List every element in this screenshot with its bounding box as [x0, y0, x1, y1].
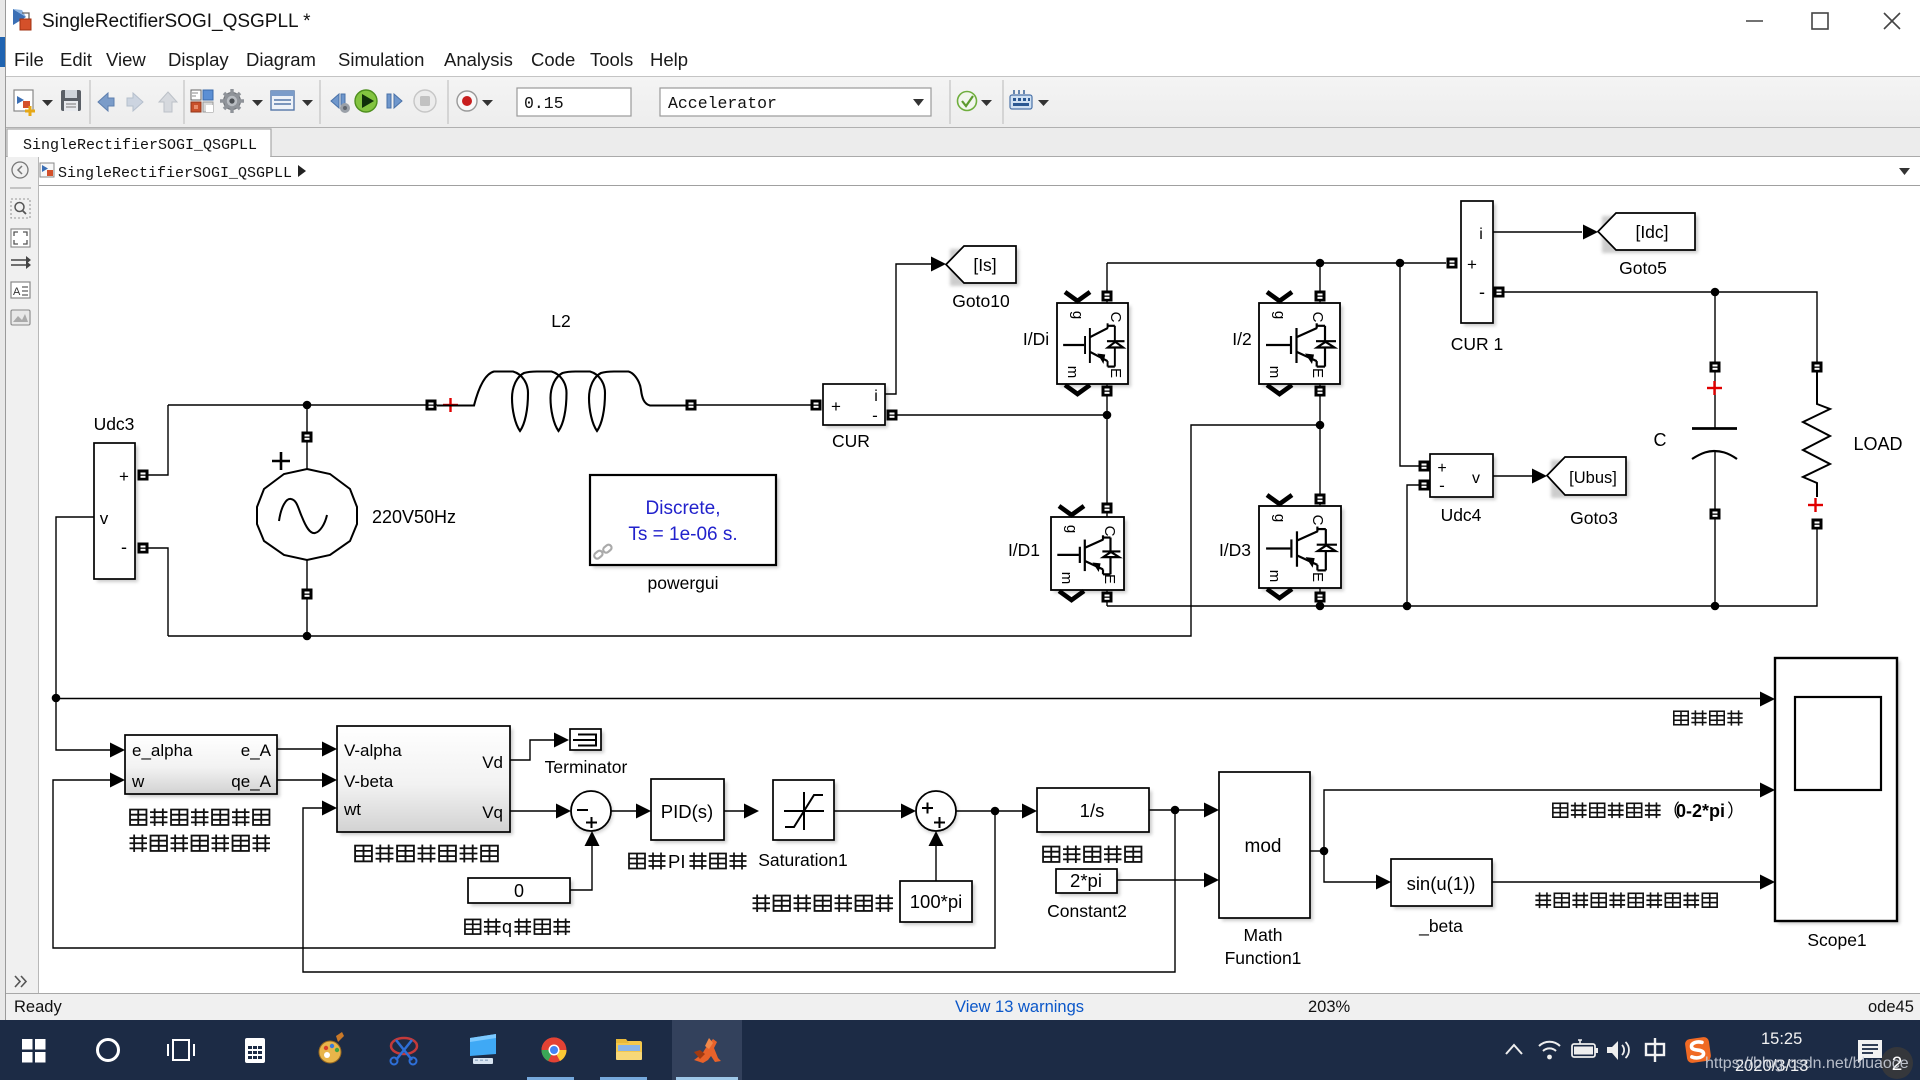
goto tag Goto10 [Is] [950, 249, 1019, 286]
wire mod to sin [1324, 851, 1377, 882]
svg-text:E: E [1309, 572, 1326, 582]
label 锁相PI调节器 [629, 854, 645, 869]
svg-text:+: + [119, 467, 129, 486]
wire sin to Scope1 input 3 [1492, 881, 1761, 883]
I/2 top port [1319, 263, 1321, 303]
wire Udc3 + to top rail [148, 405, 168, 475]
svg-text:g: g [1063, 525, 1080, 533]
LOAD zigzag [1803, 372, 1830, 497]
wire Udc3 v output down to control section [56, 517, 112, 750]
svg-text:Goto3: Goto3 [1570, 508, 1618, 528]
svg-text:I/D3: I/D3 [1219, 540, 1251, 560]
wire Vq to sum1 [510, 810, 556, 812]
svg-text:C: C [1654, 430, 1667, 450]
svg-text:Ready: Ready [14, 998, 62, 1016]
toolbar: check model icon [958, 92, 977, 111]
outer left desktop strip [0, 0, 6, 1020]
svg-text:SingleRectifierSOGI_QSGPLL: SingleRectifierSOGI_QSGPLL [23, 137, 257, 154]
CUR 1 + port [1447, 258, 1458, 269]
svg-text:C: C [1107, 312, 1124, 323]
wire sum1 to PID [611, 810, 636, 812]
wire DC positive rail to C and LOAD [1504, 292, 1817, 363]
svg-text:Udc4: Udc4 [1441, 505, 1482, 525]
wire DC bottom rail [1107, 529, 1817, 606]
toolbar: step back button [331, 94, 350, 113]
svg-text:g: g [1271, 311, 1288, 319]
voltage measurement Udc3 [97, 446, 138, 582]
wire w feedback [53, 780, 995, 948]
toolbar: up arrow (disabled) [159, 92, 177, 112]
label 电网电压 [1674, 711, 1688, 725]
svg-text:-: - [1439, 476, 1445, 495]
saturation block Saturation1 [776, 783, 837, 843]
wire Vd to Terminator [510, 740, 554, 760]
svg-text:View 13 warnings: View 13 warnings [955, 998, 1084, 1016]
Udc4 + port [1419, 461, 1430, 472]
I/D3 bottom port [1319, 588, 1321, 606]
Udc3 + port [138, 470, 149, 481]
constant 0 block [471, 881, 573, 906]
svg-text:e_alpha: e_alpha [132, 741, 193, 760]
I/D1 top port [1102, 503, 1113, 514]
svg-text:I/2: I/2 [1232, 329, 1251, 349]
svg-text:Tools: Tools [590, 49, 633, 70]
junction wt feedback tap [1171, 806, 1180, 815]
I/D3 top port [1315, 494, 1326, 505]
wire DC top rail [1107, 262, 1446, 264]
svg-text:m: m [1058, 572, 1075, 585]
toolbar: step forward button [387, 94, 402, 108]
svg-text:wt: wt [343, 800, 361, 819]
svg-text:E: E [1309, 368, 1326, 378]
svg-text:i: i [874, 388, 878, 405]
wire 100*pi to sum2 [935, 845, 937, 881]
svg-text:Simulation: Simulation [338, 49, 424, 70]
toolbar: back arrow [98, 93, 114, 111]
svg-text:m: m [1266, 366, 1283, 379]
wire Udc4 tap from top rail [1400, 263, 1419, 466]
svg-text:LOAD: LOAD [1853, 434, 1902, 454]
svg-text:Code: Code [531, 49, 575, 70]
L2 coil [437, 372, 691, 432]
svg-text:Vq: Vq [482, 803, 503, 822]
svg-text:sin(u(1)): sin(u(1)) [1407, 873, 1476, 894]
active tab [7, 129, 271, 157]
svg-text:0.15: 0.15 [524, 94, 564, 113]
svg-text:[Is]: [Is] [973, 255, 996, 275]
palette: image annotation [11, 310, 30, 325]
IGBT I/2 [1262, 306, 1343, 387]
svg-text:e_A: e_A [241, 741, 272, 760]
wire CUR 1 i output to Goto5 [1493, 231, 1582, 233]
junction AC top [303, 401, 312, 410]
svg-text:qe_A: qe_A [231, 772, 271, 791]
remote desktop [470, 1034, 496, 1064]
sum block sum2 [916, 792, 958, 834]
wire SOGI e_A to V-alpha [277, 748, 323, 750]
svg-text:C: C [1309, 312, 1326, 323]
palette: annotation tool [11, 282, 30, 298]
wire Udc4 v output to Goto3 [1493, 475, 1532, 477]
IGBT I/Di [1060, 306, 1131, 387]
svg-text:Scope1: Scope1 [1807, 930, 1866, 950]
label 二阶广义积分器 [130, 810, 146, 825]
svg-text:）: ） [1727, 801, 1745, 821]
wire PID to Saturation1 [724, 810, 744, 812]
tab strip [6, 128, 1920, 157]
start button [22, 1039, 46, 1063]
svg-text:powergui: powergui [647, 573, 718, 593]
palette: signal arrows [11, 260, 28, 265]
svg-text:0: 0 [514, 881, 524, 901]
matlab icon [694, 1038, 721, 1063]
wire integrator to mod [1149, 809, 1204, 811]
capacitor plates [1692, 427, 1737, 430]
svg-text:[Ubus]: [Ubus] [1569, 469, 1617, 487]
label 电网电压相角的正弦值 [1535, 892, 1551, 908]
label 单同步坐标变换 [355, 846, 372, 862]
constant 2*pi block [1059, 872, 1120, 896]
IGBT I/D3 [1262, 509, 1344, 591]
svg-text:Udc3: Udc3 [94, 414, 135, 434]
svg-text:g: g [1069, 311, 1086, 319]
svg-text:Analysis: Analysis [444, 49, 513, 70]
IGBT I/D1 [1054, 520, 1127, 593]
I/Di bottom port [1106, 384, 1108, 517]
svg-text:Display: Display [168, 49, 229, 70]
svg-text:w: w [131, 772, 145, 791]
toolbar: save icon [61, 90, 81, 111]
svg-text:1/s: 1/s [1080, 800, 1105, 821]
svg-text:A: A [13, 286, 21, 298]
svg-text:v: v [1472, 470, 1480, 487]
AC source plus sign [272, 452, 290, 470]
current measurement CUR 1 [1464, 204, 1496, 326]
wire mod to Scope1 input 2 [1324, 790, 1761, 851]
toolbar: record button [457, 91, 477, 111]
palette: fit to view [11, 229, 30, 247]
tray: battery [1572, 1040, 1598, 1057]
svg-text:Help: Help [650, 49, 688, 70]
palette: zoom tool [11, 199, 30, 218]
svg-text:220V50Hz: 220V50Hz [372, 507, 456, 527]
svg-text:C: C [1309, 515, 1326, 526]
wire CUR i output to Goto10 [885, 264, 931, 394]
svg-text:m: m [1064, 366, 1081, 379]
svg-text:+: + [1467, 255, 1477, 274]
svg-text:PI: PI [668, 851, 685, 872]
svg-text:E: E [1101, 574, 1118, 584]
svg-text:Math: Math [1244, 925, 1283, 945]
palette: expand chevrons [15, 976, 26, 987]
windows taskbar [0, 1020, 1920, 1080]
Udc4 - port [1419, 480, 1430, 491]
toolbar background [6, 76, 1920, 128]
svg-text:Goto5: Goto5 [1619, 258, 1667, 278]
CUR + port [811, 400, 822, 411]
wire Udc3 - to bottom rail [148, 548, 168, 636]
label 正交信号发生器 [130, 835, 147, 852]
svg-text:Edit: Edit [60, 49, 92, 70]
subsystem single synchronous frame transform [340, 729, 513, 835]
paint [319, 1032, 344, 1063]
toolbar: sim time field [517, 88, 631, 116]
svg-text:https://blog.csdn.net/bluaoce: https://blog.csdn.net/bluaoce [1705, 1055, 1909, 1072]
wire AC return rail [168, 425, 1320, 636]
junction AC bottom [303, 632, 312, 641]
powergui broken link icon [593, 543, 613, 559]
svg-text:q: q [502, 917, 512, 937]
task view [168, 1040, 194, 1060]
tray: notifications [1858, 1040, 1882, 1063]
label 电网电压相角 0-2*pi [1553, 803, 1568, 817]
svg-text:CUR 1: CUR 1 [1451, 334, 1504, 354]
chrome [541, 1037, 566, 1062]
toolbar: run button [355, 90, 377, 112]
svg-text:+: + [831, 397, 841, 416]
wire constant 0 to sum1 [570, 845, 592, 890]
svg-text:SingleRectifierSOGI_QSGPLL: SingleRectifierSOGI_QSGPLL [58, 165, 292, 182]
calculator [245, 1038, 265, 1063]
svg-text:View: View [106, 49, 146, 70]
LOAD red plus [1808, 498, 1823, 512]
svg-text:100*pi: 100*pi [910, 891, 962, 912]
svg-text:Ts = 1e-06 s.: Ts = 1e-06 s. [628, 524, 737, 545]
toolbar: library browser icon [191, 90, 213, 112]
AC source top port [306, 405, 308, 469]
function block sin(u(1)) [1394, 862, 1495, 909]
title bar Simulink logo [13, 9, 31, 30]
CUR - port [887, 410, 898, 421]
svg-text:Diagram: Diagram [246, 49, 316, 70]
svg-text:CUR: CUR [832, 431, 870, 451]
toolbar: mode combo [660, 88, 931, 116]
label 指令q轴电压 [465, 919, 481, 934]
toolbar: keyboard icon [1010, 90, 1032, 109]
junction w feedback tap [991, 807, 1000, 816]
voltage measurement Udc4 [1433, 457, 1496, 500]
svg-text:2*pi: 2*pi [1070, 870, 1102, 891]
svg-text:mod: mod [1245, 836, 1282, 857]
toolbar: gear icon [224, 93, 241, 110]
toolbar: forward arrow (disabled) [127, 93, 143, 111]
capacitor red plus [1707, 381, 1722, 395]
tray: sogou icon [1684, 1036, 1711, 1063]
wire 2*pi to mod [1117, 879, 1204, 881]
Udc3 - port [138, 543, 149, 554]
toolbar: new model icon [14, 90, 35, 116]
wire SOGI qe_A to V-beta [277, 779, 323, 781]
wire mod output [1310, 850, 1324, 852]
sum block sum1 [571, 792, 613, 834]
svg-text:-: - [1479, 282, 1485, 302]
svg-text:Discrete,: Discrete, [646, 498, 721, 519]
taskbar highlight for MATLAB [672, 1020, 742, 1080]
svg-text:+: + [1437, 460, 1446, 477]
junction at grid voltage tap [52, 694, 61, 703]
current measurement CUR [826, 387, 888, 428]
svg-text:[Idc]: [Idc] [1635, 222, 1668, 242]
svg-text:15:25: 15:25 [1761, 1030, 1802, 1048]
svg-text:V-beta: V-beta [344, 772, 394, 791]
I/Di top port [1106, 263, 1108, 303]
svg-text:Accelerator: Accelerator [668, 94, 777, 113]
CUR 1 - port [1494, 287, 1505, 298]
wire sum2 to integrator [956, 810, 1022, 812]
svg-text:Goto10: Goto10 [952, 291, 1010, 311]
wire top rail to L2 [168, 404, 437, 406]
toolbar: stop button (disabled) [414, 90, 436, 112]
left palette [6, 157, 38, 993]
scope block Scope1 [1778, 661, 1900, 924]
svg-text:Constant2: Constant2 [1047, 901, 1127, 921]
svg-text:File: File [14, 49, 44, 70]
math function block mod [1222, 775, 1313, 921]
wire down to capacitor [1714, 292, 1716, 428]
svg-text:C: C [1101, 526, 1118, 537]
svg-text:V-alpha: V-alpha [344, 741, 402, 760]
wire L2 to CUR [696, 404, 811, 406]
wire Saturation1 to sum2 [834, 810, 901, 812]
subsystem SOGI quadrature signal generator [128, 738, 280, 797]
AC source 220V50Hz [257, 469, 357, 560]
svg-text:Function1: Function1 [1225, 948, 1302, 968]
tray: wifi [1539, 1042, 1560, 1051]
file explorer [616, 1039, 642, 1060]
window buttons [1746, 13, 1900, 29]
junction bridge right mid [1316, 421, 1325, 430]
svg-text:v: v [100, 509, 109, 528]
tray: chevron [1506, 1045, 1522, 1054]
wire wt feedback [303, 808, 1175, 972]
svg-text:0-2*pi: 0-2*pi [1676, 801, 1725, 821]
svg-text:E: E [1107, 368, 1124, 378]
svg-text:L2: L2 [551, 311, 570, 331]
snipping tool [391, 1038, 418, 1065]
powergui block [593, 478, 779, 568]
svg-text:I/Di: I/Di [1023, 329, 1049, 349]
svg-text:g: g [1271, 514, 1288, 522]
svg-text:SingleRectifierSOGI_QSGPLL *: SingleRectifierSOGI_QSGPLL * [42, 11, 311, 32]
svg-text:_beta: _beta [1418, 916, 1463, 937]
integrator block 1/s [1040, 791, 1152, 835]
constant 100*pi block [903, 884, 975, 925]
tray: IME zhong [1646, 1038, 1664, 1062]
AC source bottom port [306, 560, 308, 636]
label 理想电网角速度 [753, 895, 770, 912]
svg-text:Saturation1: Saturation1 [758, 850, 848, 870]
wire Udc4 - to bottom rail [1407, 485, 1419, 606]
taskbar underlines [527, 1077, 574, 1080]
tray: speaker [1607, 1041, 1629, 1060]
goto tag Goto3 [Ubus] [1551, 460, 1629, 498]
terminator block [573, 732, 604, 753]
svg-text:Terminator: Terminator [545, 757, 628, 777]
svg-text:ode45: ode45 [1868, 998, 1914, 1016]
svg-text:m: m [1266, 570, 1283, 583]
I/D1 bottom port [1106, 590, 1108, 606]
I/2 bottom port [1319, 384, 1321, 506]
breadcrumb bar [38, 157, 1920, 185]
label 积分求角度 [1043, 847, 1059, 862]
PID controller block [654, 782, 727, 843]
L2 red plus [443, 398, 458, 412]
junction bridge left mid [1103, 411, 1112, 420]
svg-text:I/D1: I/D1 [1008, 540, 1040, 560]
svg-text:Vd: Vd [482, 753, 503, 772]
notification badge [1881, 1047, 1913, 1079]
svg-text:203%: 203% [1308, 998, 1351, 1016]
svg-text:PID(s): PID(s) [661, 801, 713, 822]
svg-text:-: - [121, 537, 127, 557]
svg-text:-: - [872, 406, 878, 425]
palette: back button [12, 162, 28, 178]
canvas [39, 186, 1920, 993]
status bar [6, 993, 1920, 1020]
toolbar: model settings icon [271, 91, 294, 110]
cortana [98, 1040, 119, 1061]
svg-text:i: i [1479, 226, 1483, 243]
wire CUR - to bridge left leg [897, 414, 1107, 416]
goto tag Goto5 [Idc] [1602, 216, 1698, 253]
wire grid voltage to Scope1 input 1 [56, 698, 1761, 700]
